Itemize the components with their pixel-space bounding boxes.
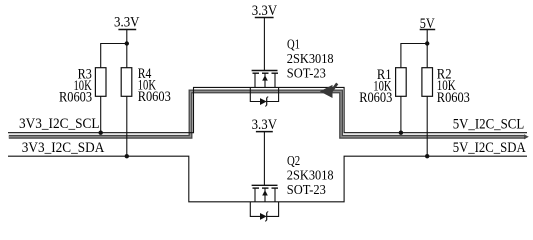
- wire Q2 gate to 3.3V: [263, 132, 265, 186]
- label R3 value: [59, 67, 92, 106]
- junction 3.3V / R4: [125, 41, 129, 45]
- svg-text:3V3_I2C_SDA: 3V3_I2C_SDA: [22, 140, 105, 156]
- svg-text:2SK3018: 2SK3018: [287, 52, 334, 67]
- label R2 value: [437, 66, 470, 106]
- svg-text:2SK3018: 2SK3018: [287, 168, 334, 183]
- label R1 value: [359, 67, 392, 106]
- svg-text:5V_I2C_SDA: 5V_I2C_SDA: [453, 140, 526, 156]
- svg-text:Q1: Q1: [287, 38, 300, 53]
- power symbol 3.3V (left, above R3/R4): [114, 15, 140, 44]
- arrow annotation on SCL trace near Q1 drain: [320, 83, 337, 98]
- resistor R4: [121, 68, 132, 157]
- resistor R1: [396, 68, 407, 133]
- label R4 value: [138, 66, 171, 105]
- svg-text:R0603: R0603: [437, 90, 470, 106]
- label Q2: [287, 154, 334, 198]
- transistor Q1 (2SK3018 N-MOSFET, horizontal): [252, 71, 278, 88]
- svg-text:3.3V: 3.3V: [252, 3, 277, 19]
- svg-text:R0603: R0603: [59, 90, 92, 106]
- svg-text:R0603: R0603: [359, 90, 392, 106]
- body diode of Q1: [250, 87, 278, 106]
- wire Q1 gate to 3.3V: [263, 18, 265, 71]
- svg-text:3.3V: 3.3V: [114, 15, 140, 31]
- wire 3.3V branch to R3/R4 tops: [101, 44, 127, 68]
- junction R1 / SCL: [399, 131, 403, 135]
- transistor Q2 (2SK3018 N-MOSFET, horizontal): [252, 185, 278, 202]
- junction 5V / R2: [425, 41, 429, 45]
- resistor R3: [95, 68, 106, 133]
- power symbol 5V (right, above R1/R2): [420, 16, 436, 44]
- power symbol 3.3V (above Q2 gate): [252, 117, 278, 133]
- wire 5V branch to R1/R2 tops: [401, 44, 427, 68]
- junction R3 / SCL: [99, 131, 103, 135]
- label Q1: [287, 38, 334, 82]
- svg-text:SOT-23: SOT-23: [287, 67, 326, 82]
- svg-text:Q2: Q2: [287, 154, 300, 169]
- wire 3V3 SCL to 5V SCL (thin black path through Q1): [8, 87, 527, 132]
- svg-text:3.3V: 3.3V: [252, 117, 278, 133]
- wire 3V3 SDA to 5V SDA (thin black path through Q2): [8, 156, 527, 202]
- svg-text:5V_I2C_SCL: 5V_I2C_SCL: [453, 117, 525, 133]
- power symbol 3.3V (above Q1 gate): [252, 3, 277, 19]
- svg-text:3V3_I2C_SCL: 3V3_I2C_SCL: [19, 116, 100, 132]
- junction R4 / SDA: [125, 154, 129, 158]
- resistor R2: [422, 68, 433, 157]
- svg-text:SOT-23: SOT-23: [287, 183, 326, 198]
- svg-text:R0603: R0603: [138, 89, 171, 105]
- body diode of Q2: [250, 202, 278, 222]
- highlighted SCL trace overlay (gray): [9, 91, 529, 139]
- junction R2 / SDA: [425, 154, 429, 158]
